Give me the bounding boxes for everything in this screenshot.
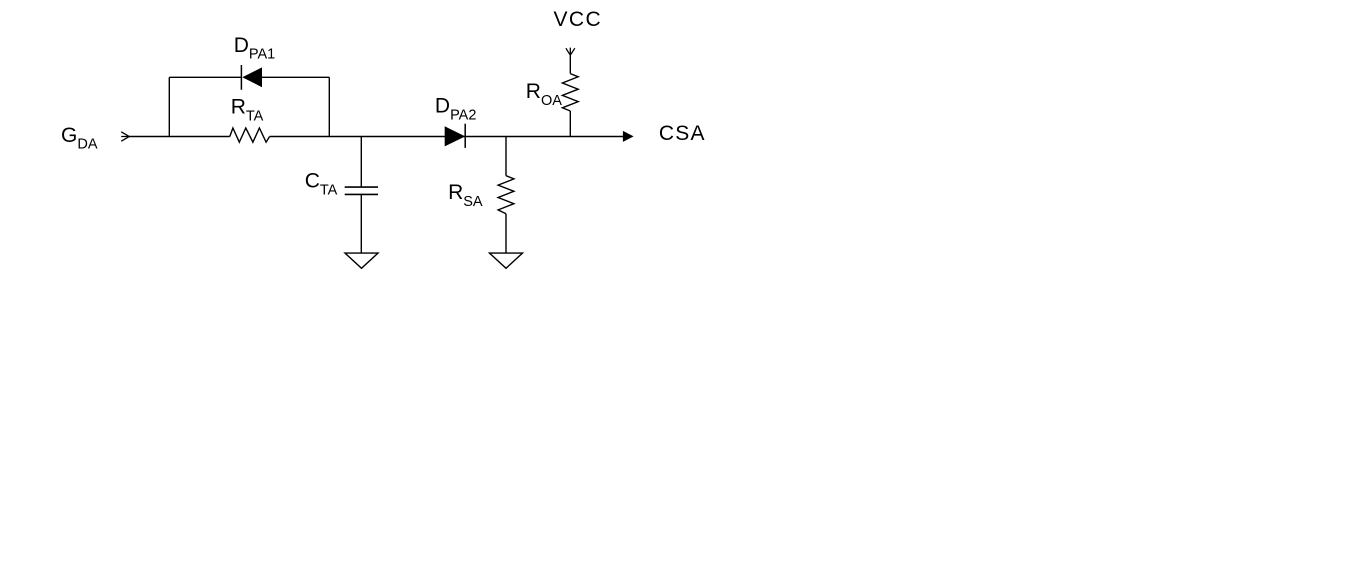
wire R_SA branch lower — [505, 214, 507, 253]
resistor R1 R_TA — [230, 128, 270, 142]
wire R_OA branch upper — [569, 55, 571, 73]
output arrowhead — [623, 131, 634, 142]
diode D_PA1 — [241, 65, 262, 90]
wire capacitor branch lower — [360, 194, 362, 253]
ground GND2 — [490, 253, 523, 268]
svg-text:DPA1: DPA1 — [234, 34, 276, 63]
wire capacitor branch upper — [360, 137, 362, 188]
wire loop left vertical — [168, 77, 170, 136]
resistor R2 R_SA — [498, 176, 514, 214]
resistor R3 R_OA — [562, 74, 578, 111]
wire loop right vertical — [328, 77, 330, 136]
svg-text:CSA: CSA — [659, 122, 706, 145]
svg-text:RTA: RTA — [231, 96, 264, 125]
capacitor C1 C_TA — [345, 187, 378, 194]
svg-text:GDA: GDA — [61, 124, 98, 153]
power symbol VCC — [566, 48, 575, 56]
wire main middle segment — [270, 136, 624, 138]
svg-text:RSA: RSA — [448, 181, 483, 210]
wire loop top left — [169, 76, 241, 78]
wire main left segment — [129, 136, 230, 138]
wire R_OA branch lower — [569, 111, 571, 137]
svg-text:ROA: ROA — [526, 80, 562, 109]
diode D_PA2 — [445, 124, 466, 148]
wire R_SA branch upper — [505, 137, 507, 176]
svg-text:VCC: VCC — [554, 8, 603, 31]
port arrow G_DA — [121, 132, 129, 141]
svg-text:DPA2: DPA2 — [435, 95, 477, 124]
wire loop top right — [262, 76, 329, 78]
ground GND1 — [345, 253, 378, 268]
svg-text:CTA: CTA — [305, 170, 338, 199]
